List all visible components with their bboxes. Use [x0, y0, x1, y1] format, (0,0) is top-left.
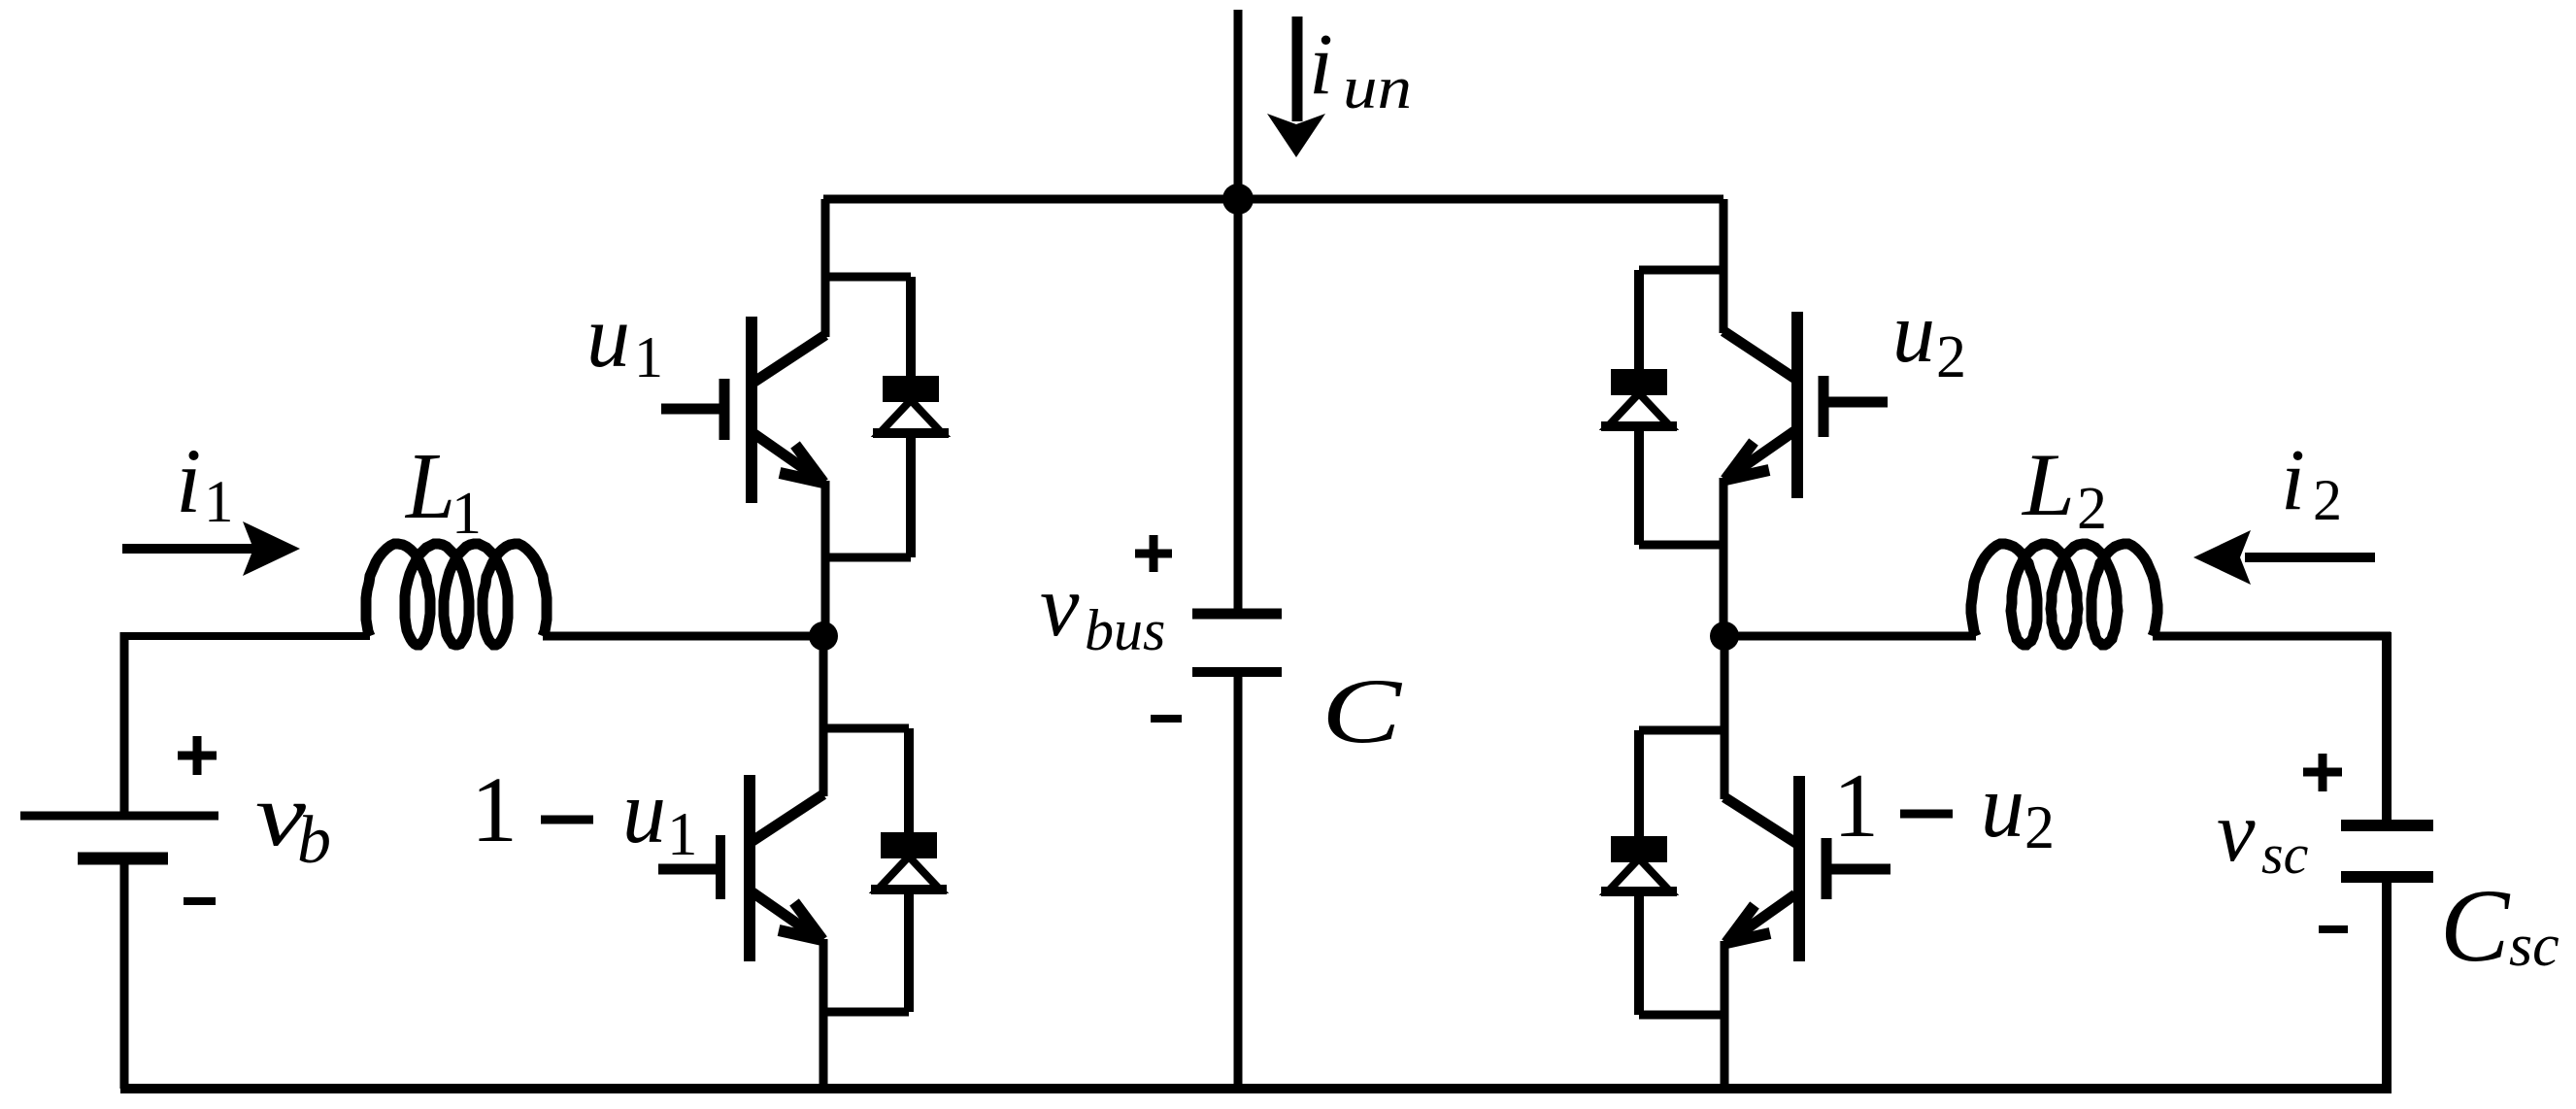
svg-text:bus: bus — [1085, 598, 1165, 662]
IGBT Q4 (1-u2, lower right) — [1724, 636, 1890, 1089]
wire: right bridge node to L2 — [1724, 632, 1976, 641]
svg-text:2: 2 — [2077, 476, 2107, 542]
wire: bottom rail — [120, 1084, 2392, 1093]
svg-text:C: C — [1321, 659, 1403, 762]
IGBT Q3 (u2, upper right) — [1723, 199, 1888, 636]
battery minus sign — [184, 897, 216, 905]
wire: left vertical down to battery — [120, 632, 129, 816]
wire: right vertical down to Csc — [2382, 632, 2392, 825]
diode D1 (antiparallel, upper left) — [825, 277, 949, 557]
inductor L2 — [1971, 544, 2158, 645]
svg-text:b: b — [297, 803, 331, 878]
svg-text:1: 1 — [471, 757, 518, 861]
diode D4 (antiparallel, lower right) — [1601, 730, 1724, 1015]
wire: battery negative to bottom rail — [120, 858, 129, 1089]
node: right bridge midpoint — [1710, 622, 1739, 651]
arrow i2 — [2193, 530, 2375, 585]
svg-text:2: 2 — [2313, 468, 2342, 532]
svg-text:sc: sc — [2261, 823, 2309, 886]
svg-text:1: 1 — [452, 481, 482, 547]
wire: Csc to bottom rail — [2382, 877, 2392, 1089]
wire: top bus vertical into node and down to capacitor C — [1234, 10, 1243, 609]
inductor L1 — [366, 544, 547, 645]
svg-text:L: L — [2021, 435, 2075, 534]
node: bus top junction — [1222, 184, 1254, 215]
svg-text:1: 1 — [634, 325, 663, 389]
svg-text:v: v — [1040, 556, 1080, 655]
bus minus sign — [1151, 715, 1182, 723]
wire: L2 to right corner — [2153, 632, 2391, 641]
capacitor C (bus) — [1192, 614, 1282, 672]
node: left bridge midpoint — [809, 622, 838, 651]
svg-text:i: i — [176, 429, 201, 532]
sc plus sign — [2303, 754, 2342, 791]
wire: left mid horizontal from corner to L1 — [120, 632, 370, 640]
arrow i1 — [122, 521, 300, 576]
IGBT Q2 (1-u1, lower left) — [658, 636, 823, 1089]
arrow iun — [1267, 17, 1325, 157]
svg-text:u: u — [622, 762, 666, 862]
sc minus sign — [2319, 925, 2348, 933]
wire: top horizontal rail — [823, 195, 1723, 204]
diode D2 (antiparallel, lower left) — [823, 728, 947, 1012]
diode D3 (antiparallel, upper right) — [1601, 270, 1723, 545]
svg-text:u: u — [1892, 286, 1935, 381]
svg-text:u: u — [1981, 756, 2024, 857]
svg-text:1: 1 — [667, 800, 698, 868]
svg-text:un: un — [1343, 55, 1412, 121]
svg-text:1: 1 — [204, 470, 234, 535]
svg-text:2: 2 — [1936, 324, 1966, 390]
svg-text:v: v — [2217, 785, 2256, 880]
battery plus sign — [178, 736, 217, 775]
svg-text:2: 2 — [2024, 792, 2055, 861]
wire: L1 to left bridge node — [543, 632, 823, 641]
svg-text:i: i — [1309, 17, 1333, 113]
bus plus sign — [1135, 535, 1172, 572]
svg-text:sc: sc — [2509, 913, 2559, 979]
IGBT Q1 (u1, upper left) — [661, 199, 825, 636]
svg-text:i: i — [2281, 432, 2305, 528]
svg-text:1: 1 — [1833, 756, 1879, 857]
svg-text:u: u — [586, 286, 630, 386]
svg-text:L: L — [404, 434, 455, 539]
battery vb — [20, 816, 218, 858]
svg-text:C: C — [2440, 869, 2511, 984]
wire: bus capacitor lower lead to bottom rail — [1234, 677, 1243, 1089]
capacitor Csc — [2341, 825, 2433, 877]
